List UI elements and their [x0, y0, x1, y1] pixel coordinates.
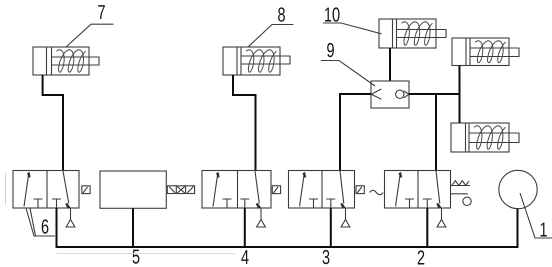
air source / compressor 1	[499, 170, 537, 208]
label 7	[66, 24, 114, 47]
directional valve 6 (3/2)	[13, 171, 90, 228]
label 1	[520, 193, 552, 238]
label 9	[321, 61, 375, 87]
wire: cylinder 10 down to valve 9	[389, 48, 391, 81]
background artifacts	[6, 173, 236, 254]
wire: compressor 1 drop to bus	[517, 209, 519, 248]
cylinder 8 (spring-return, single acting)	[223, 47, 290, 75]
label 8	[248, 25, 294, 48]
cylinder 10 (spring-return, single acting)	[379, 19, 446, 48]
wire: valve 3 drop	[330, 208, 332, 248]
wire: component 5 drop to bus	[132, 208, 134, 248]
label 2	[0, 0, 1, 1]
supply bus wire	[57, 246, 518, 248]
label 10	[323, 23, 382, 34]
wire: branch down to valve 2	[435, 94, 437, 171]
label 5	[0, 0, 1, 1]
directional valve 3 (3/2)	[289, 171, 384, 228]
wire: valve 4 drop	[244, 208, 246, 248]
cylinder upper-right (spring-return, single acting)	[452, 38, 519, 66]
wire: valve 9 left port to valve 3	[340, 94, 371, 171]
wire: cylinder 7 to valve 6	[43, 75, 63, 171]
wire: valve 6 drop	[56, 208, 58, 248]
directional valve 2 (3/2)	[385, 171, 472, 228]
cylinder lower-right (spring-return, single acting)	[451, 123, 519, 152]
label 3	[0, 0, 1, 1]
directional valve 4 (3/2)	[202, 171, 281, 228]
wire: valve 9 right port to right cylinders	[409, 66, 460, 124]
wire: valve 2 drop	[426, 208, 428, 248]
component 5 (control block)	[100, 171, 195, 208]
label 6	[26, 208, 55, 236]
quick-exhaust valve 9	[371, 81, 409, 108]
label 4	[0, 0, 1, 1]
wire: cylinder 8 to valve 4	[233, 75, 256, 171]
cylinder 7 (spring-return, single acting)	[33, 47, 99, 75]
